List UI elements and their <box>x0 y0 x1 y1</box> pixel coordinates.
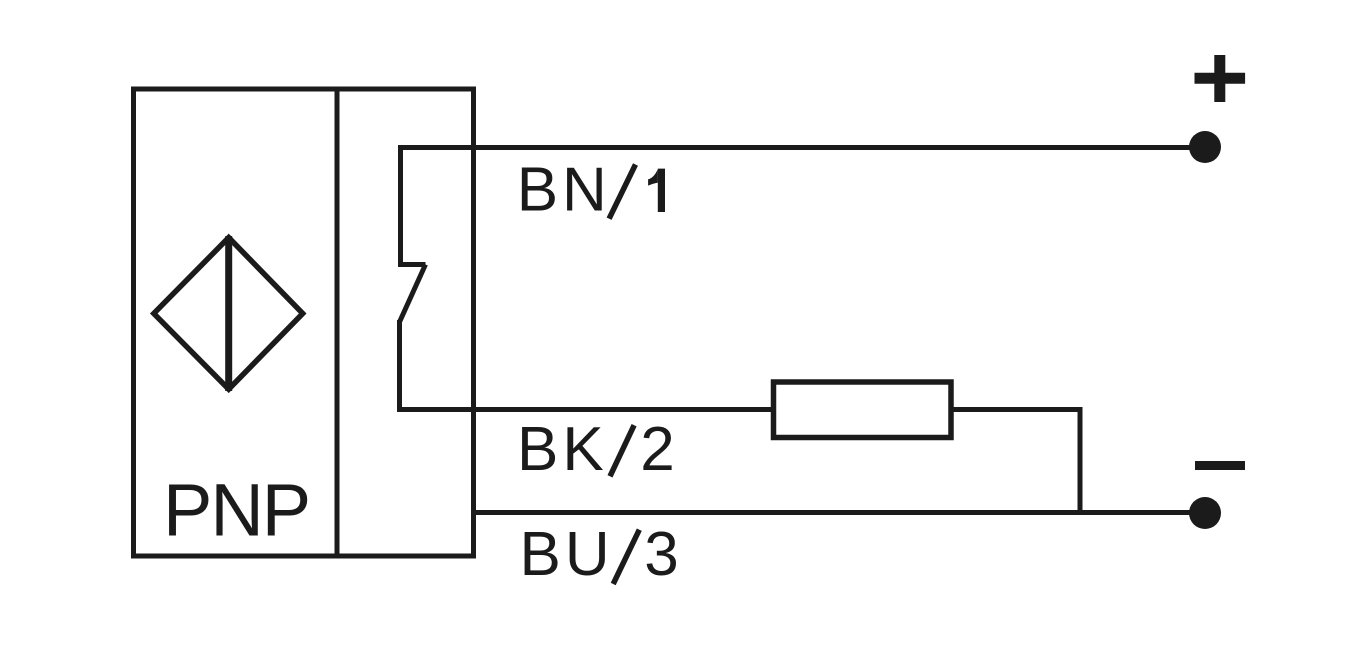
switch contact lower lead <box>397 320 402 412</box>
sensor body divider <box>335 89 340 556</box>
sensor body box <box>134 89 474 556</box>
minus terminal dot <box>1189 497 1221 529</box>
label BU/3 slash <box>613 530 639 584</box>
switch contact upper lead <box>398 148 403 267</box>
diamond center line <box>225 236 232 391</box>
plus sign <box>1195 55 1246 102</box>
svg-text:BN: BN <box>517 156 611 225</box>
svg-text:BK: BK <box>517 415 608 484</box>
wire BK/2 from switch to load <box>400 407 774 412</box>
svg-text:PNP: PNP <box>163 469 309 552</box>
switch contact moving blade <box>400 265 426 323</box>
label BK/2 slash <box>610 425 634 476</box>
wire from load to minus rail <box>951 410 1080 513</box>
svg-text:2: 2 <box>640 415 674 484</box>
label BN/1 digit 1 <box>648 169 665 212</box>
switch contact fixed jog <box>398 262 426 267</box>
wire BU/3 to minus terminal <box>474 510 1193 515</box>
minus sign <box>1195 461 1245 470</box>
svg-text:3: 3 <box>644 520 678 589</box>
label BN/1 slash <box>609 165 635 219</box>
plus terminal dot <box>1189 131 1221 163</box>
load resistor <box>774 382 952 438</box>
svg-text:BU: BU <box>520 520 614 589</box>
sensor diamond symbol <box>154 238 303 390</box>
wire BN/1 to plus terminal <box>398 145 1192 150</box>
